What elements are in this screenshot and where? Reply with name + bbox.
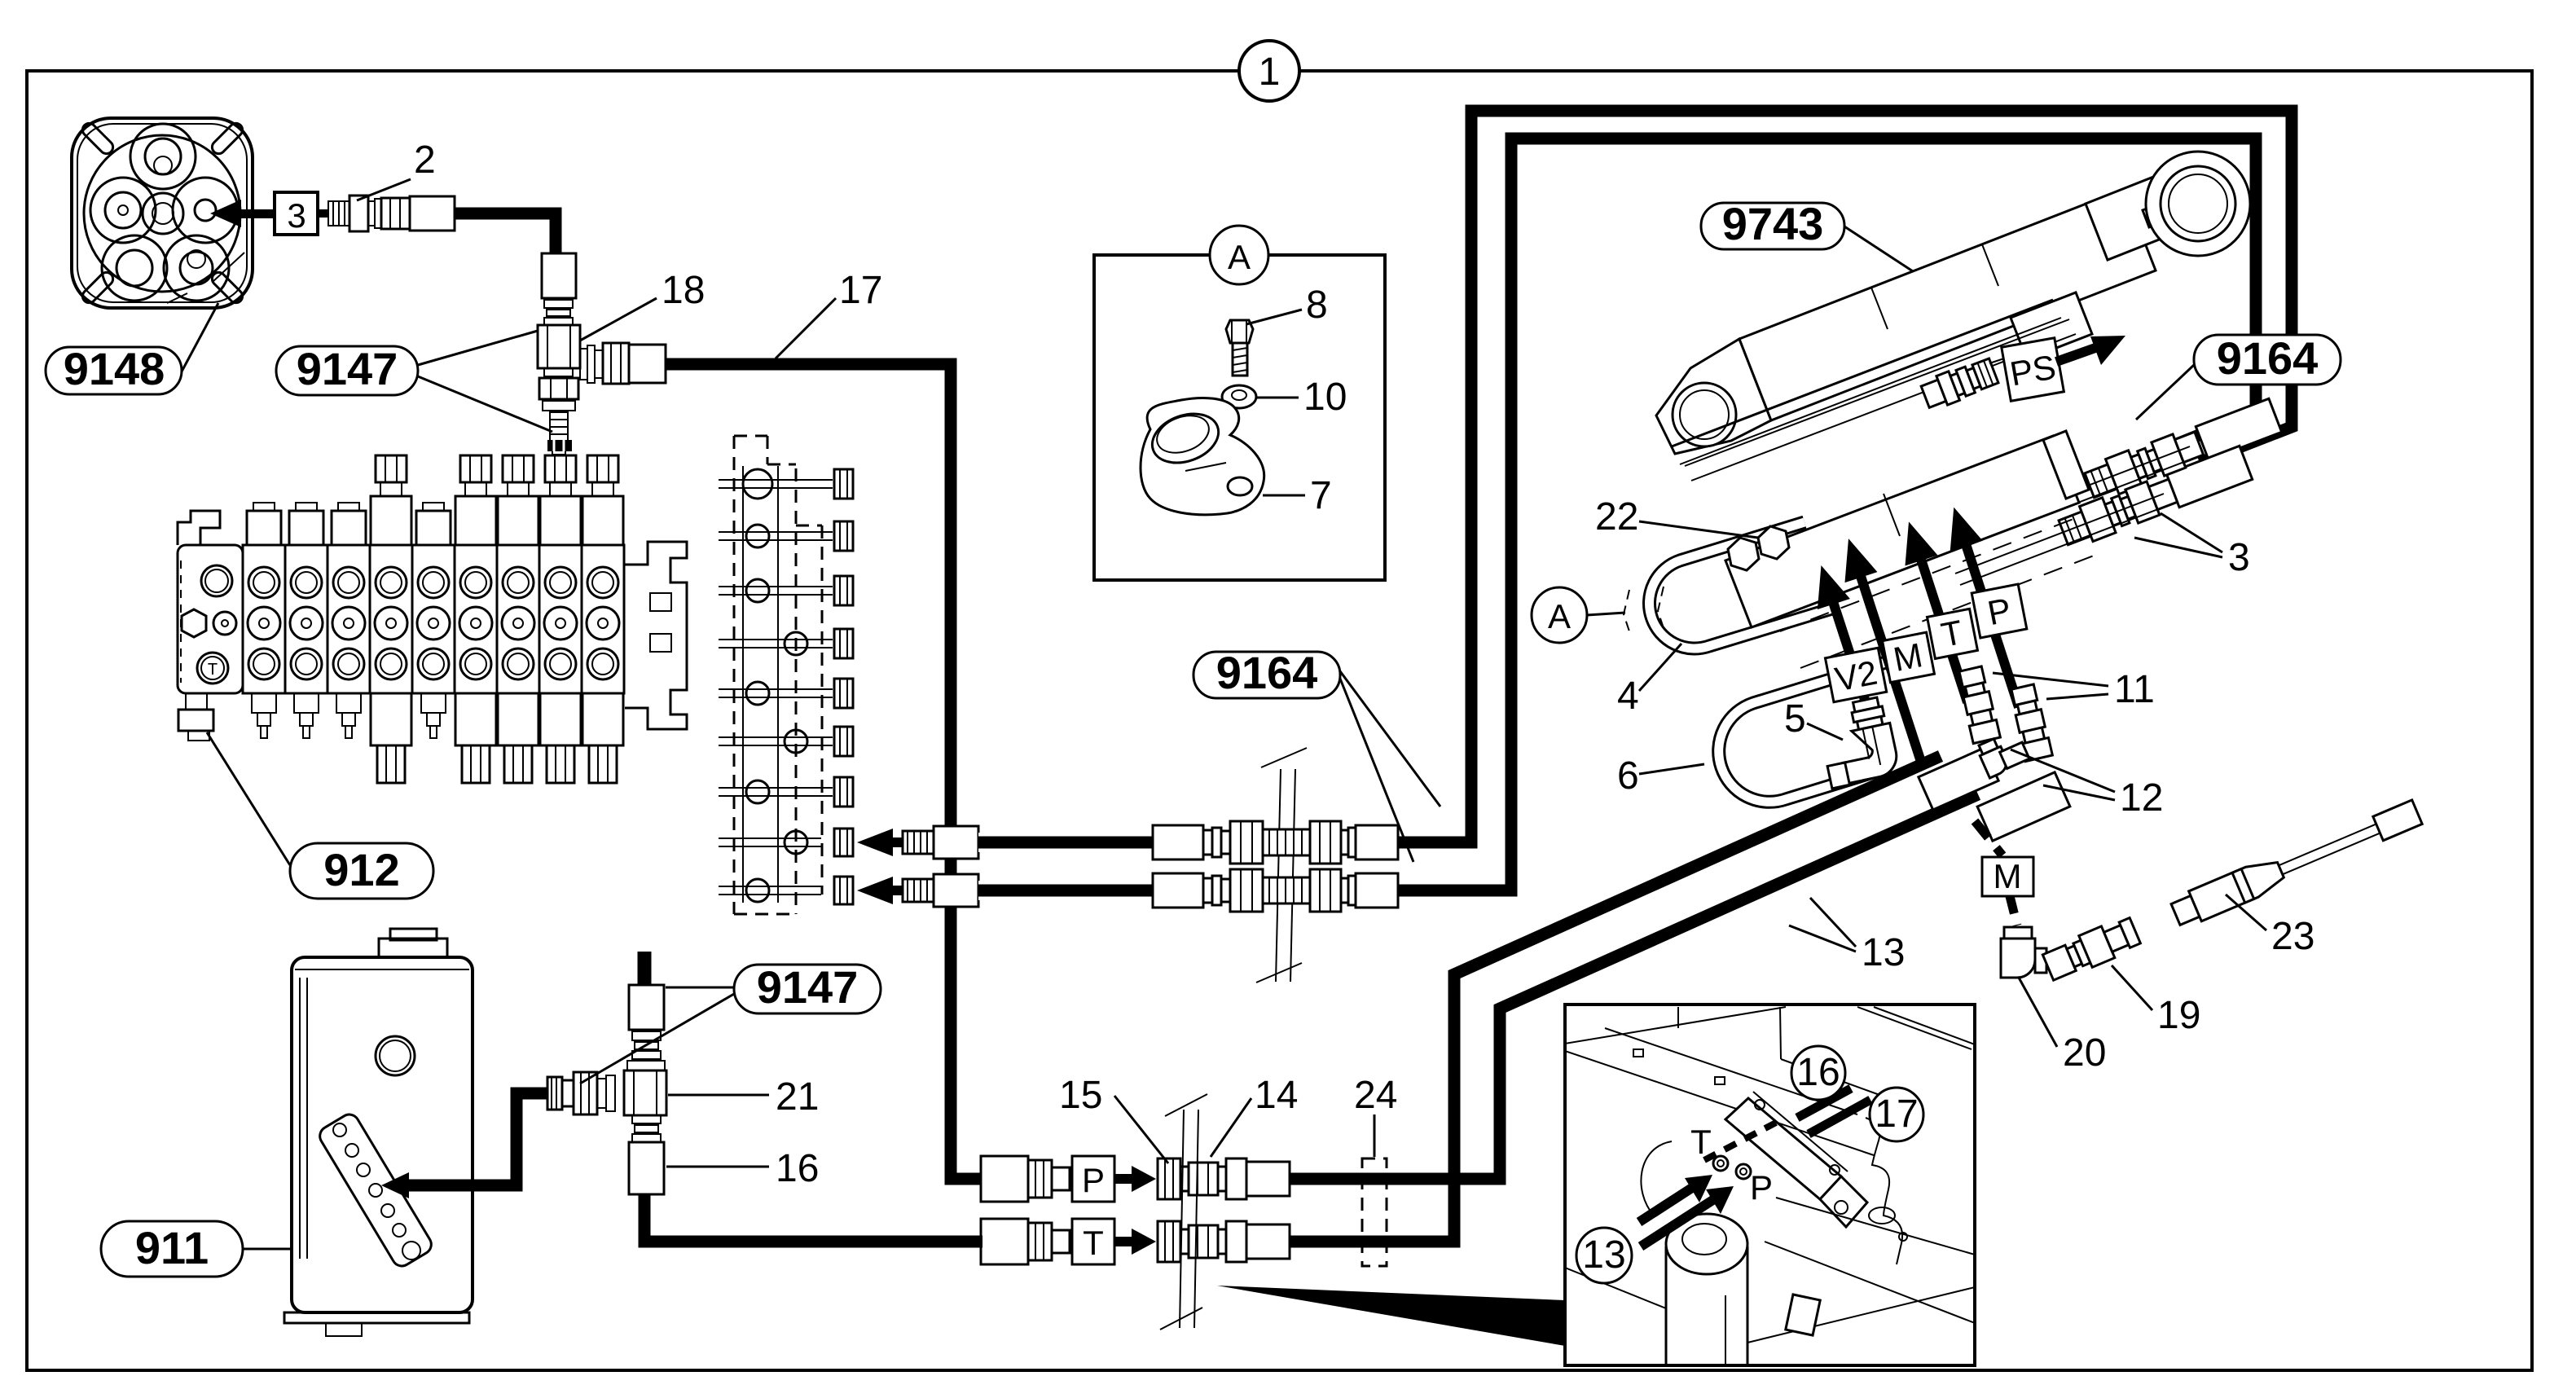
hose tee2 to tank (404, 1093, 547, 1185)
long hose coupling at wall y=1093 (1153, 873, 1203, 908)
hose 17 from tee to lower P-line (666, 364, 982, 1179)
svg-text:T: T (1690, 1123, 1712, 1161)
PS arrow (2056, 336, 2125, 365)
inset circle 13 (1576, 1228, 1632, 1283)
manifold port row 5 (719, 688, 833, 690)
manifold port row 2 (719, 531, 833, 533)
svg-text:9164: 9164 (1216, 647, 1318, 698)
frame hose inner (row 9 loop around top) (1398, 138, 2256, 890)
bottom branch: locknut and stem (544, 368, 573, 376)
svg-text:9743: 9743 (1722, 198, 1824, 249)
long hose coupling at wall y=1034 (1153, 825, 1203, 859)
pilot tube under cylinder (1685, 319, 2076, 481)
valve section 2 (285, 545, 327, 693)
manifold port row 9 (719, 886, 821, 887)
svg-text:3: 3 (2228, 536, 2250, 579)
detail A frame box (1094, 255, 1385, 580)
T box (1928, 609, 1978, 658)
label 20 (2019, 978, 2106, 1075)
svg-text:21: 21 (776, 1075, 819, 1119)
svg-text:24: 24 (1354, 1074, 1397, 1117)
label 19 (2112, 965, 2200, 1037)
svg-text:T: T (208, 661, 218, 679)
label 3 (fittings) (2134, 513, 2250, 579)
svg-text:11: 11 (2114, 668, 2155, 711)
svg-text:9148: 9148 (64, 343, 165, 394)
valve section 6 (455, 545, 497, 693)
manifold port row 7 (719, 787, 833, 789)
inset lower frame lines (1565, 1268, 1666, 1308)
inset tower (1666, 1214, 1747, 1274)
label 14 (1211, 1074, 1298, 1157)
hose tee2 down to T line (644, 1194, 982, 1242)
svg-text:P: P (1750, 1168, 1773, 1207)
svg-text:3: 3 (287, 196, 306, 235)
corner slot top-left (80, 121, 116, 156)
bulkhead union 3 upper (2083, 426, 2206, 503)
pointer triangle to inset (1217, 1286, 1565, 1346)
svg-text:1: 1 (1259, 51, 1281, 94)
swivel coupling 9148 body (72, 118, 253, 308)
union 11 left (1957, 666, 2000, 743)
PS pilot fitting (1919, 356, 1999, 411)
label 12 (2011, 750, 2163, 820)
svg-text:9164: 9164 (2217, 332, 2319, 384)
label 17 (776, 269, 882, 358)
svg-text:2: 2 (414, 138, 436, 182)
sensor probe 23 (2169, 797, 2424, 930)
label 7 (1263, 474, 1332, 517)
washer 10 (1222, 385, 1256, 408)
label oval 9164 (right) (2136, 332, 2341, 420)
control valve block 912 (178, 440, 687, 783)
port boss bottom-right (164, 235, 229, 301)
dashed pilot M line down (1975, 821, 2002, 855)
arrow to manifold V2 (1805, 560, 1883, 712)
valve mounting bracket (625, 542, 687, 729)
elbow 5 (1816, 696, 1901, 789)
svg-text:12: 12 (2120, 776, 2163, 820)
arrow to manifold M (1832, 534, 1937, 767)
inset mounting bar (1725, 1098, 1841, 1199)
svg-text:15: 15 (1059, 1074, 1102, 1117)
svg-text:8: 8 (1306, 284, 1328, 327)
valve section 5 (412, 545, 455, 693)
svg-text:5: 5 (1784, 697, 1806, 741)
side branch of tee (580, 349, 587, 380)
corner slot bottom-right (209, 270, 245, 306)
svg-text:22: 22 (1595, 495, 1638, 539)
hose 13 upper (P) (1290, 794, 1978, 1179)
svg-text:9147: 9147 (757, 961, 859, 1013)
detail A circle (1210, 226, 1268, 284)
valve section 7 (497, 545, 539, 693)
T box (1072, 1219, 1114, 1264)
svg-text:23: 23 (2271, 915, 2314, 958)
fittings 19 (2042, 915, 2142, 983)
detail callout circle A (1532, 587, 1625, 643)
tee fitting assembly 18 / 9147 (538, 253, 666, 455)
hose row 9 to bulkhead union (978, 881, 1153, 900)
coupling face circle (84, 135, 240, 292)
tank strainer plate (316, 1111, 435, 1270)
label oval 9743 (1701, 198, 1913, 271)
label 4 (1617, 644, 1681, 718)
lower bulkhead wall (1160, 1094, 1207, 1330)
inset P stud (1736, 1164, 1751, 1179)
cylinder rod eye (2146, 152, 2250, 256)
arrow to manifold P (1937, 502, 2035, 712)
hose end coupling lower right (2166, 446, 2252, 507)
hydraulic tank 911 (284, 929, 473, 1336)
svg-text:19: 19 (2157, 994, 2200, 1037)
fitting 2 (bulkhead adapter) (318, 196, 455, 231)
manifold hex nuts (1728, 526, 1789, 570)
mid bulkhead wall (1256, 748, 1307, 983)
svg-text:14: 14 (1255, 1074, 1298, 1117)
bulkhead manifold plate (dashed) (734, 436, 822, 914)
arrow into coupling port (210, 200, 275, 227)
hose loop 4 (1650, 522, 1835, 648)
label 23 (2226, 895, 2314, 958)
label 24 (1354, 1074, 1397, 1157)
callout circle 1 (1239, 41, 1299, 101)
label 8 (1246, 284, 1328, 327)
label oval 911 (101, 1221, 292, 1277)
bulkhead union 14 at P line (1158, 1158, 1290, 1199)
label 11 (1993, 668, 2155, 711)
elbow 20 (2001, 927, 2046, 978)
hose end coupling upper right (2196, 398, 2281, 459)
valve section 8 (539, 545, 582, 693)
label oval 9147 (upper) (276, 331, 552, 432)
inset dashed hose path (1704, 1123, 1776, 1160)
pilot tubes from unions 3 (1955, 446, 2195, 585)
cylinder head block (2086, 176, 2178, 260)
svg-text:6: 6 (1617, 754, 1639, 798)
svg-text:911: 911 (135, 1222, 209, 1273)
cylinder barrel (1739, 189, 2156, 420)
cylinder port block (2011, 292, 2092, 359)
M box lower (1982, 857, 2033, 896)
svg-text:912: 912 (323, 844, 399, 895)
M box (1883, 632, 1935, 683)
inset hook (1641, 1141, 1672, 1216)
svg-text:13: 13 (1862, 931, 1905, 974)
svg-text:13: 13 (1582, 1233, 1625, 1277)
arrow to manifold T (1892, 517, 1984, 708)
P box (1972, 584, 2027, 638)
PS box (2002, 338, 2064, 401)
bulkhead union 14 at T line (1158, 1221, 1290, 1262)
hose loop 6 (1719, 662, 1888, 802)
corner slot top-right (209, 121, 245, 156)
inset T stud (1713, 1156, 1728, 1171)
manifold port row 1 (719, 479, 833, 481)
label 22 (1595, 495, 1758, 539)
label 10 (1256, 376, 1347, 419)
manifold block 22 (1725, 431, 2089, 627)
label oval 9148 (46, 303, 218, 394)
valve section 4 (370, 545, 412, 693)
hose from fitting 2 to tee 18 (455, 213, 556, 255)
label 21 (668, 1075, 819, 1119)
svg-text:20: 20 (2063, 1031, 2106, 1075)
inset hoses 16/17 (1797, 1088, 1851, 1118)
svg-text:18: 18 (662, 269, 705, 312)
svg-text:4: 4 (1617, 675, 1639, 718)
junction coupling lower (P) (1977, 772, 2070, 841)
P box (1072, 1156, 1114, 1202)
svg-text:17: 17 (839, 269, 882, 312)
label 6 (1617, 754, 1704, 798)
hydraulic cylinder 9743 (1656, 152, 2250, 454)
port boss left (90, 178, 156, 243)
label oval 9147 (lower) (580, 961, 881, 1084)
hose stub above tee2 (638, 952, 652, 987)
arrow T to bulkhead (1114, 1229, 1156, 1255)
bolt 8 (1226, 320, 1253, 376)
svg-text:17: 17 (1875, 1092, 1918, 1136)
dashed sleeve 24 (1362, 1158, 1387, 1266)
label 5 (1784, 697, 1843, 741)
frame hose inner casing (1434, 881, 1504, 901)
label 16 (tee outlet) (666, 1147, 819, 1190)
inset detail box (1565, 1005, 1975, 1365)
hose coupling left of T box (981, 1219, 1070, 1264)
hose row 8 to bulkhead union (978, 833, 1153, 852)
clamp 7 (1141, 398, 1264, 514)
inset frame panel lines (1565, 1007, 1786, 1044)
V2 box (1825, 648, 1886, 702)
inset circle 17 (1870, 1088, 1923, 1141)
label oval 912 (207, 732, 433, 899)
svg-text:M: M (1994, 857, 2022, 895)
port boss bottom-left (102, 235, 167, 301)
rod strip under cylinder (1672, 300, 2061, 464)
inset circle 16 (1791, 1046, 1845, 1100)
cap on section 8 (547, 440, 572, 451)
frame hose outer (row 8 loop around top) (1398, 111, 2292, 842)
hose coupling left of P box (981, 1156, 1070, 1202)
svg-text:7: 7 (1310, 474, 1332, 517)
inset arrows 13 (1639, 1186, 1695, 1222)
center port (143, 193, 183, 234)
manifold port row 4 (719, 639, 833, 640)
hose 13 lower (T) (1290, 756, 1941, 1242)
valve section 9 (582, 545, 624, 693)
box 3 (275, 192, 318, 235)
elbow 12 (1976, 729, 2029, 778)
label 2 (357, 138, 436, 200)
tee fitting 21 assembly (547, 985, 666, 1194)
label oval 9164 (middle) (1193, 647, 1440, 862)
svg-text:PS: PS (2007, 347, 2059, 393)
arrow P to bulkhead (1114, 1166, 1156, 1192)
valve end plate (178, 511, 220, 545)
label 15 (1059, 1074, 1168, 1163)
svg-text:P: P (1082, 1161, 1105, 1199)
arrow into tank strainer (381, 1172, 409, 1198)
tee2 bottom branch (632, 1115, 661, 1123)
svg-text:T: T (1083, 1224, 1104, 1262)
label 13 (hoses) (1789, 898, 1905, 974)
valve section 1 (243, 545, 285, 693)
corner slot bottom-left (80, 270, 116, 306)
svg-text:9147: 9147 (297, 343, 398, 394)
clamp position marker A (1624, 587, 1664, 634)
bulkhead union 3 lower (2057, 473, 2180, 551)
valve T-port fitting (186, 693, 207, 710)
cylinder rod (2143, 200, 2177, 227)
manifold port row 8 (719, 837, 821, 839)
cylinder left lug (1656, 339, 1771, 454)
svg-text:A: A (1548, 597, 1571, 635)
pilot line to PS box (1989, 357, 2009, 363)
union 11 right (2009, 684, 2052, 761)
svg-text:V2: V2 (1832, 653, 1880, 699)
svg-text:16: 16 (776, 1147, 819, 1190)
manifold port row 6 (719, 736, 833, 738)
svg-text:A: A (1228, 238, 1251, 276)
valve section 3 (327, 545, 370, 693)
port boss right (arrow target) (173, 178, 238, 243)
port boss top (130, 124, 196, 189)
junction coupling upper (T) (1919, 748, 1998, 810)
tee2 side branch (606, 1075, 615, 1111)
svg-text:16: 16 (1796, 1051, 1840, 1094)
svg-text:10: 10 (1303, 376, 1347, 419)
pilot tubes below manifold (dashed) (1780, 519, 2094, 668)
label 18 (580, 269, 705, 341)
inset scalloped frame edge (1866, 1118, 1902, 1264)
manifold port row 3 (719, 586, 833, 587)
dashed below M box (2010, 896, 2017, 925)
